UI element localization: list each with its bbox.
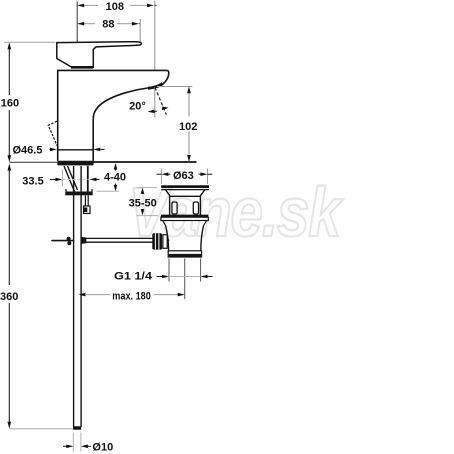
svg-text:360: 360 [0, 291, 18, 303]
hidden tailpiece lines [168, 259, 170, 282]
shank thread hatch [64, 166, 75, 192]
svg-text:G1 1/4: G1 1/4 [114, 271, 153, 283]
horizontal rod to drain [86, 237, 153, 239]
drain lower body [166, 226, 204, 251]
node spout-tip ext line [154, 1, 156, 70]
drain bottom lip [168, 251, 201, 257]
drain neck [163, 221, 207, 226]
drain body upper [169, 196, 171, 215]
svg-text:4-40: 4-40 [104, 172, 126, 184]
knurled nut [152, 233, 162, 249]
dim max. 180 [79, 291, 185, 303]
dim 35-50 [129, 187, 158, 215]
rod bottom cap [73, 426, 81, 430]
node drain center line [184, 259, 186, 300]
svg-text:20°: 20° [129, 101, 146, 113]
nut cap [163, 235, 167, 249]
dim 108 [77, 1, 156, 13]
mounting nut bracket [84, 196, 86, 207]
svg-text:33.5: 33.5 [22, 175, 43, 187]
wire deck ext line left [9, 161, 57, 163]
pop-up rod knob (dashed) [48, 121, 57, 145]
dim 4-40 [97, 163, 127, 191]
shank right edge [87, 166, 89, 192]
dim O10 [63, 442, 113, 454]
boss dotted arc [167, 236, 168, 247]
pop-up rod vertical [73, 166, 75, 427]
handle lever [57, 42, 142, 68]
dim O63 [157, 169, 213, 185]
node handle-tip ext line [139, 19, 141, 42]
dim 360 [0, 164, 73, 429]
svg-text:160: 160 [1, 97, 19, 109]
dim O46.5 [13, 144, 105, 156]
node spout ext line lower segment [154, 87, 156, 117]
handle bottom thick edge [71, 66, 93, 69]
base band [57, 161, 93, 166]
T-bar of pop-up rod [52, 240, 73, 242]
wedge joint to horizontal rod [81, 237, 86, 244]
clamp plate [66, 189, 92, 192]
svg-text:108: 108 [106, 1, 124, 13]
drain flange [161, 215, 208, 218]
body joint line [58, 149, 93, 151]
svg-text:Ø63: Ø63 [173, 170, 194, 182]
svg-text:35-50: 35-50 [129, 198, 157, 210]
dim 88 [77, 18, 140, 30]
dim G1 1/4 [114, 271, 213, 283]
drain funnel rim [161, 185, 209, 188]
svg-text:max. 180: max. 180 [112, 291, 151, 303]
aerator thick arc [148, 83, 163, 88]
dim 33.5 [22, 170, 99, 188]
node center axis ext line [76, 2, 78, 42]
dim 160 [1, 42, 56, 162]
wire deck line [93, 161, 196, 163]
watermark Vane.sk [129, 172, 344, 251]
svg-text:Ø46.5: Ø46.5 [13, 144, 43, 156]
svg-text:102: 102 [179, 121, 197, 133]
slots [172, 202, 177, 214]
funnel slopes [166, 190, 205, 197]
svg-text:88: 88 [102, 18, 114, 30]
faucet body outline [58, 70, 169, 160]
svg-text:Ø10: Ø10 [92, 442, 113, 454]
dim 102 [157, 86, 197, 162]
dim 20deg [129, 88, 168, 115]
node rod ext lines [72, 433, 74, 452]
